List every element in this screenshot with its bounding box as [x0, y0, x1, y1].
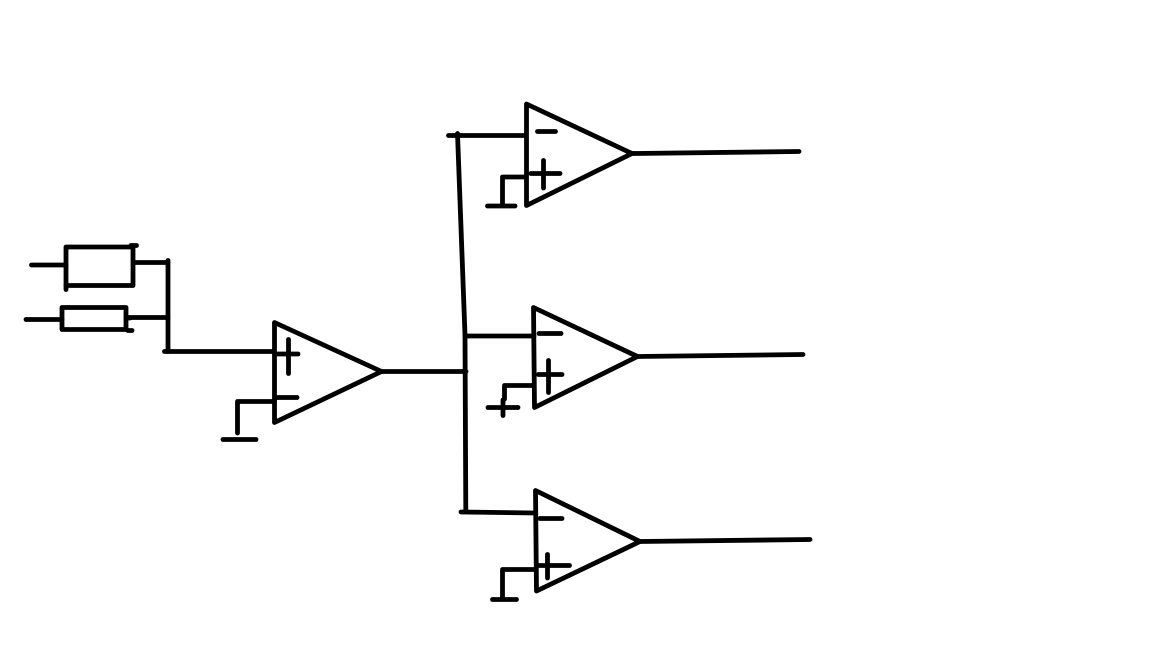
wire U1 output	[382, 369, 467, 374]
wire bus to U2	[449, 133, 527, 138]
wire bus to U4	[461, 512, 535, 513]
wire bus vertical	[458, 134, 466, 512]
op-amp U3	[534, 308, 638, 408]
wire R2 output	[129, 315, 168, 320]
resistor R2	[62, 308, 132, 331]
ground U2	[488, 177, 527, 206]
op-amp U2	[527, 104, 633, 206]
wire bus to U3	[465, 334, 534, 339]
ground U1	[223, 402, 275, 440]
wire U2 output	[632, 152, 799, 154]
wire U3 output	[638, 355, 804, 357]
wire R1 output	[134, 260, 168, 265]
wire U4 output	[640, 540, 810, 542]
resistor R1	[66, 246, 137, 290]
op-amp U4	[536, 491, 641, 592]
wire R2 input	[26, 317, 62, 322]
wire R1 input	[32, 263, 67, 268]
wire to U1 input	[165, 349, 275, 354]
ground U3	[488, 386, 534, 416]
wire vertical join	[166, 261, 171, 352]
ground U4	[493, 570, 537, 600]
op-amp U1	[275, 323, 382, 423]
